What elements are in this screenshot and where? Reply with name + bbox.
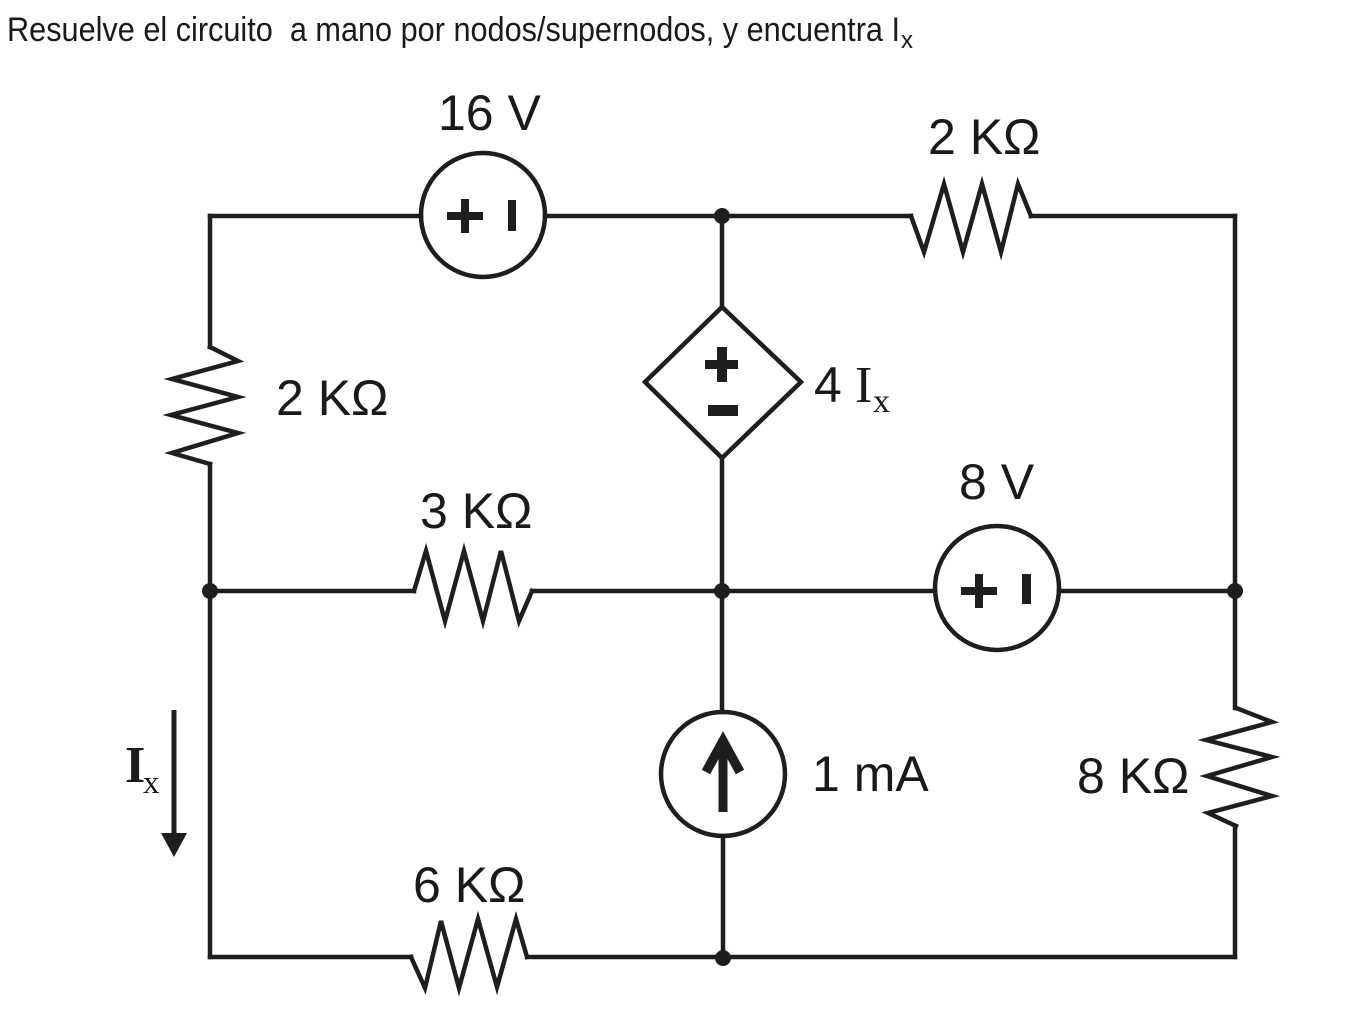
svg-text:8 KΩ: 8 KΩ: [1077, 748, 1189, 804]
wire right vertical upper: [1233, 216, 1238, 708]
node middle-center: [714, 583, 730, 599]
wire 8V to right node: [1059, 589, 1235, 594]
wire left vertical upper: [208, 216, 213, 347]
resistor R4 6K bottom: [411, 919, 527, 988]
svg-text:3 KΩ: 3 KΩ: [420, 483, 532, 539]
resistor R5 8K right: [1206, 708, 1272, 826]
I1 arrow: [706, 741, 740, 812]
svg-text:8 V: 8 V: [959, 454, 1035, 510]
Ix arrow shaft: [172, 710, 177, 838]
wire right vertical lower: [1233, 826, 1238, 957]
wire center (middle node to current source): [720, 591, 725, 712]
svg-text:1 mA: 1 mA: [812, 746, 929, 802]
svg-text:x: x: [873, 383, 890, 420]
E1 plus sign: [705, 360, 738, 369]
resistor R3 3K middle: [414, 551, 532, 621]
svg-text:I: I: [855, 357, 872, 414]
resistor R1 2K left: [171, 347, 238, 464]
svg-text:x: x: [143, 765, 160, 801]
V2 plus sign: [961, 587, 997, 595]
current source I1 1mA circle: [661, 712, 785, 836]
E1 minus bar: [708, 405, 738, 416]
V1 minus bar: [508, 200, 516, 231]
V1 plus sign: [447, 212, 483, 220]
V2 minus bar: [1022, 574, 1031, 604]
svg-text:6 KΩ: 6 KΩ: [413, 857, 525, 913]
wire middle horizontal to 8V: [532, 589, 935, 594]
svg-text:x: x: [901, 27, 913, 54]
wire center (current source to bottom node): [721, 836, 726, 957]
wire center top (node to diamond): [720, 216, 725, 307]
wire top-middle horizontal: [545, 214, 911, 219]
svg-text:4: 4: [814, 357, 842, 413]
resistor R2 2K top: [911, 184, 1031, 252]
Ix arrowhead: [161, 833, 187, 857]
svg-text:2 KΩ: 2 KΩ: [276, 370, 388, 426]
node middle-right: [1227, 583, 1243, 599]
voltage source V2 8V circle: [935, 526, 1059, 650]
wire middle-left horizontal: [210, 589, 414, 594]
voltage source V1 16V circle: [421, 153, 545, 277]
svg-text:2 KΩ: 2 KΩ: [928, 109, 1040, 165]
wire bottom-left horizontal: [210, 955, 411, 960]
dependent source E1 diamond: [645, 307, 801, 458]
svg-text:16 V: 16 V: [438, 85, 542, 141]
node middle-left: [202, 583, 218, 599]
wire top-right horizontal: [1031, 214, 1235, 219]
node bottom-center: [715, 950, 731, 966]
svg-text:Resuelve el circuito a mano p: Resuelve el circuito a mano por nodos/su…: [7, 11, 900, 49]
wire top-left horizontal: [210, 214, 421, 219]
wire center (diamond to middle node): [720, 458, 725, 591]
wire bottom-right horizontal: [527, 955, 1235, 960]
wire left vertical lower: [208, 464, 213, 957]
node top-center: [714, 208, 730, 224]
